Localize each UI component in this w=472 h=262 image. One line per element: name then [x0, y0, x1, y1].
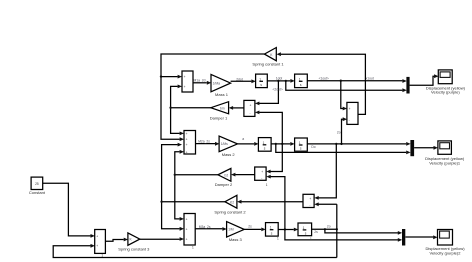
gain Spring constant 2 — [214, 195, 246, 214]
wire mux2 to scope2 — [414, 146, 438, 150]
wire sum5 output up to spring1 input — [277, 52, 366, 114]
wire integrator3 to integrator4 — [271, 142, 295, 146]
svg-text:+: + — [186, 143, 188, 147]
gain Mass 1 — [211, 74, 231, 97]
wire rotated sum2 output to damper2 — [231, 173, 255, 177]
svg-text:<1out>: <1out> — [319, 77, 329, 81]
integrator Integrator3 (1/s) — [295, 138, 308, 151]
svg-text:1: 1 — [277, 237, 279, 241]
svg-text:1: 1 — [266, 183, 268, 187]
svg-text:+: + — [309, 197, 311, 201]
svg-text:+: + — [184, 75, 186, 79]
svg-text:+: + — [184, 85, 186, 89]
wire v2 vertical to rotated sum1 input2 and rotated sum2 input1 — [255, 111, 283, 174]
wire integrator2 to mux1 input1 — [307, 79, 407, 83]
svg-text:+: + — [96, 234, 98, 238]
svg-text:Do: Do — [311, 145, 315, 149]
node C branch v1 to mux1 input2 — [285, 80, 407, 92]
svg-text:b2: b2 — [225, 173, 229, 177]
svg-text:1/Ma: 1/Ma — [213, 81, 220, 85]
svg-text:-: - — [309, 204, 310, 208]
svg-text:+: + — [186, 227, 188, 231]
svg-text:+: + — [186, 138, 188, 142]
integrator Integrator5 (1/s) — [298, 223, 312, 241]
svg-text:-: - — [261, 177, 262, 181]
integrator Integrator2 (1/s) — [258, 138, 271, 152]
svg-text:Mass 1: Mass 1 — [215, 92, 229, 97]
wire sum2 to Mass2 gain — [196, 142, 220, 146]
wire v3 vertical to rotated sum2 input2 and mux3 input2 — [266, 175, 402, 242]
svg-text:+: + — [186, 150, 188, 154]
wire mux3 to scope3 — [405, 235, 437, 239]
svg-text:1/M: 1/M — [228, 228, 234, 232]
wire sum3 to Mass3 gain — [195, 227, 227, 231]
integrator Integrator (1/s) — [256, 74, 268, 88]
sum block Sum3 — [184, 214, 195, 250]
svg-text:2s: 2s — [314, 230, 318, 234]
svg-text:2dot: 2dot — [236, 78, 243, 82]
svg-text:M3a_2s: M3a_2s — [199, 225, 211, 229]
svg-text:bm: bm — [220, 106, 225, 110]
mux Mux2 — [410, 140, 414, 156]
svg-text:Spring constant 3: Spring constant 3 — [118, 247, 150, 252]
sum block Sum5 (x1-x2) — [347, 102, 358, 124]
svg-text:-: - — [250, 112, 251, 116]
gain Damper 1 — [210, 102, 229, 121]
gain Spring constant 3 — [118, 233, 150, 252]
svg-text:+: + — [186, 217, 188, 221]
svg-text:K2: K2 — [230, 200, 234, 204]
sum block rotated Add3 (x2-x3) — [303, 194, 314, 207]
svg-text:<2dot>: <2dot> — [273, 88, 283, 92]
gain Mass 2 — [219, 136, 237, 157]
wire x3 vertical to rotated sum3 input2 and bottom loop — [314, 202, 337, 257]
wire sum1 to Mass1 gain — [193, 81, 211, 85]
svg-text:a: a — [242, 137, 244, 141]
wire sum4 output to spring3 — [105, 238, 128, 242]
wire mux1 to scope1 — [410, 74, 439, 85]
mux Mux1 — [406, 77, 409, 94]
svg-text:1: 1 — [310, 237, 312, 241]
wire constant to sum4 input1 — [43, 183, 95, 238]
svg-text:+: + — [250, 103, 252, 107]
wire Mass3 gain to integrator5 — [244, 228, 266, 232]
svg-text:1: 1 — [192, 246, 194, 250]
node F branch v2 to mux2 input2 — [275, 143, 411, 155]
wire spring3 output to sum3 input3 — [140, 237, 184, 241]
sum block rotated Add2 — [255, 167, 268, 187]
svg-text:x1out: x1out — [366, 77, 374, 81]
wire integrator4 to mux2 input1 — [307, 142, 410, 146]
gain Mass 3 — [227, 222, 245, 243]
wire spring2 output feedback to sum2 input3 and sum3 input2 — [160, 143, 224, 231]
wire integrator6 output to x3 node — [312, 228, 338, 230]
svg-text:Damper 2: Damper 2 — [215, 182, 233, 187]
svg-text:+: + — [96, 244, 98, 248]
node D branch x1 down to sum5 input1 — [340, 80, 348, 111]
svg-text:Constant: Constant — [29, 190, 46, 195]
wire damper1 output feedback — [169, 85, 210, 136]
svg-text:1dot: 1dot — [276, 76, 283, 80]
wire spring1 output to sum1/sum2 left feedback — [161, 54, 264, 141]
integrator Integrator4 (1/s) — [266, 223, 280, 241]
svg-text:Spring constant 2: Spring constant 2 — [214, 209, 246, 214]
svg-text:1: 1 — [101, 254, 103, 258]
wire rotated sum3 output to spring2 — [237, 200, 303, 204]
svg-text:1/Ms: 1/Ms — [221, 142, 228, 146]
svg-text:+: + — [186, 237, 188, 241]
svg-text:Mass 3: Mass 3 — [229, 237, 243, 242]
wire x3 branch to mux3 input1 — [325, 229, 402, 235]
wire rotated sum1 output to damper1 — [229, 106, 244, 110]
svg-text:+: + — [186, 132, 188, 136]
svg-text:-: - — [349, 118, 350, 122]
mux Mux3 — [402, 229, 405, 246]
scope Displacement (yellow) Velocity (purple)2 — [425, 230, 465, 256]
scope Displacement (yellow) Velocity (purple)1 — [425, 141, 465, 165]
node B branch int1 out down to rotated sum1 input1 — [255, 80, 280, 106]
sum block rotated Add1 — [244, 100, 255, 116]
svg-text:Velocity (purple)1: Velocity (purple)1 — [429, 160, 461, 165]
svg-text:Velocity (purple): Velocity (purple) — [431, 90, 460, 95]
node G branch x2 down to rotated sum3 input1 — [314, 143, 337, 200]
wire Mass2 gain to integrator3 — [238, 142, 259, 146]
wire damper2 output feedback to sum2 input4 and sum3 input1 — [174, 150, 218, 221]
node A junction spring1 line to sum1 — [160, 75, 182, 79]
svg-text:2s: 2s — [248, 225, 252, 229]
wire bottom feedback loop to sum4 input2 — [53, 244, 337, 258]
gain Damper 2 — [215, 168, 233, 187]
svg-text:2o: 2o — [337, 131, 341, 135]
node E branch x2 up to sum5 input2 — [340, 117, 347, 145]
svg-text:+: + — [349, 107, 351, 111]
svg-text:M1a_2d: M1a_2d — [194, 79, 206, 83]
svg-text:Velocity (purple)2: Velocity (purple)2 — [430, 251, 462, 256]
svg-text:25: 25 — [35, 182, 39, 186]
svg-text:2o: 2o — [327, 225, 331, 229]
constant block Constant — [29, 177, 46, 195]
gain Spring constant 1 — [252, 48, 284, 67]
sum block Sum4 — [95, 230, 106, 258]
wire Mass1 gain to integrator1 — [231, 79, 256, 83]
integrator Integrator1 (1/s) — [295, 74, 308, 88]
svg-text:+: + — [261, 170, 263, 174]
svg-text:M2a_2s: M2a_2s — [198, 139, 210, 143]
sum block Sum1 — [182, 71, 193, 92]
svg-text:Mass 2: Mass 2 — [222, 152, 236, 157]
sum block Sum2 — [184, 131, 196, 155]
scope Displacement (yellow) Velocity (purple) — [426, 70, 466, 95]
svg-text:Damper 1: Damper 1 — [210, 116, 228, 121]
wire integrator5 to integrator6 — [278, 228, 298, 232]
wire integrator1 to integrator2 — [267, 79, 295, 83]
svg-text:Spring constant 1: Spring constant 1 — [252, 62, 284, 67]
